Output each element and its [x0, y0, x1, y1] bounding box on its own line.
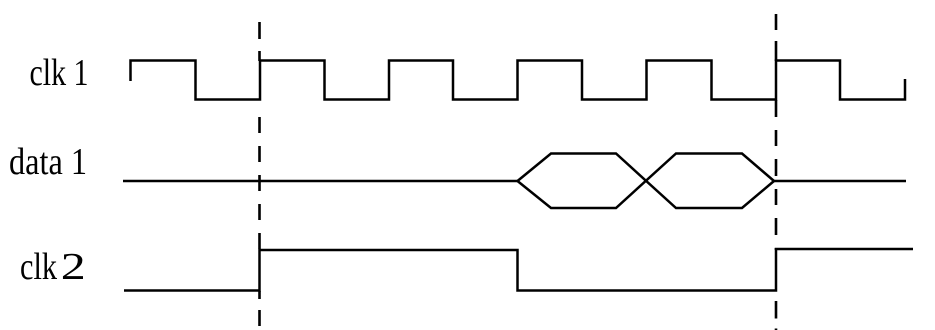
svg-text:clk2: clk2: [20, 246, 86, 288]
data1 bus line right segment: [774, 180, 906, 183]
dashed timing marker right, middle segment: [775, 100, 778, 250]
dashed timing marker left, lower segment: [258, 291, 261, 330]
clk2 clock waveform: [124, 249, 913, 291]
dashed timing marker left, upper segment: [258, 22, 261, 61]
clk1 clock waveform: [131, 61, 906, 100]
data1 bus crossover upper strand: [518, 154, 775, 209]
dashed timing marker right, lower segment: [775, 301, 778, 330]
svg-text:clk 1: clk 1: [30, 52, 89, 94]
data1 bus line left segment: [123, 180, 518, 183]
svg-text:data 1: data 1: [9, 141, 87, 183]
data1 bus crossover lower strand: [518, 154, 775, 209]
dashed timing marker right, upper segment: [775, 14, 778, 61]
dashed timing marker left, middle segment: [258, 117, 261, 250]
